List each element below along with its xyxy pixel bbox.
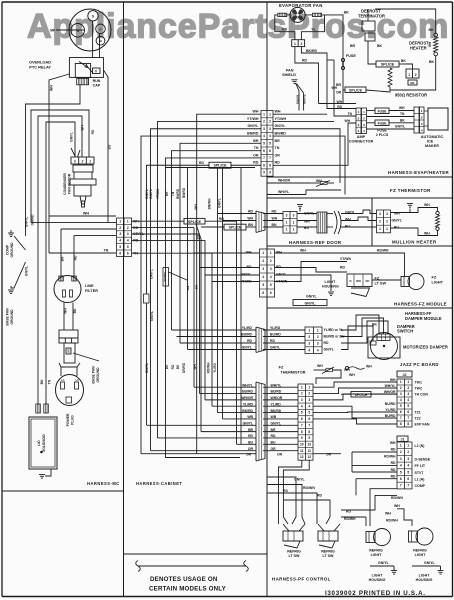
svg-text:7: 7	[301, 423, 303, 427]
svg-text:3: 3	[74, 160, 76, 164]
svg-text:EVP FAN: EVP FAN	[415, 423, 430, 427]
svg-text:BN: BN	[186, 285, 190, 290]
svg-text:EVAPORATOR FAN: EVAPORATOR FAN	[279, 3, 323, 8]
svg-text:5: 5	[308, 411, 310, 415]
svg-text:3: 3	[301, 398, 303, 402]
svg-text:GN/YL: GN/YL	[345, 211, 355, 215]
svg-text:RD/WH: RD/WH	[384, 454, 396, 458]
svg-text:AUTOMATIC: AUTOMATIC	[421, 135, 444, 139]
svg-text:3: 3	[119, 232, 121, 236]
svg-text:1: 1	[293, 220, 295, 224]
svg-text:GN/YL: GN/YL	[270, 346, 280, 350]
svg-text:FUSE: FUSE	[346, 54, 356, 58]
svg-text:7: 7	[400, 416, 402, 420]
svg-text:D-SENSE: D-SENSE	[415, 457, 431, 461]
svg-text:RD: RD	[324, 341, 329, 345]
svg-text:9: 9	[269, 171, 271, 175]
svg-text:1: 1	[408, 73, 410, 77]
svg-text:5: 5	[119, 245, 121, 249]
svg-text:7: 7	[308, 423, 310, 427]
svg-text:WH: WH	[366, 365, 372, 369]
svg-text:6: 6	[127, 251, 129, 255]
svg-text:J1: J1	[401, 438, 405, 442]
svg-text:4: 4	[317, 348, 319, 352]
svg-text:2: 2	[379, 220, 381, 224]
svg-text:RD: RD	[282, 27, 288, 31]
svg-text:6: 6	[119, 251, 121, 255]
svg-text:CONNECTOR: CONNECTOR	[349, 140, 374, 144]
svg-text:GN/YL: GN/YL	[275, 124, 287, 128]
svg-text:5: 5	[407, 470, 409, 474]
svg-text:RD/WN: RD/WN	[391, 496, 403, 500]
svg-text:MULLION HEATER: MULLION HEATER	[392, 240, 437, 245]
svg-text:3: 3	[127, 232, 129, 236]
svg-text:WH: WH	[253, 110, 259, 114]
svg-text:WH: WH	[385, 512, 391, 516]
svg-text:WH: WH	[332, 86, 338, 90]
svg-text:SPLICE: SPLICE	[381, 63, 395, 67]
svg-text:WH/OR: WH/OR	[384, 390, 396, 394]
svg-text:6: 6	[400, 410, 402, 414]
svg-text:7: 7	[407, 416, 409, 420]
svg-text:OR: OR	[275, 153, 281, 157]
svg-text:BK/RD: BK/RD	[306, 49, 318, 53]
svg-text:YL/RD: YL/RD	[270, 326, 281, 330]
svg-text:RD: RD	[171, 364, 175, 369]
svg-text:FF LIT: FF LIT	[415, 464, 426, 468]
svg-text:FZ: FZ	[279, 366, 284, 370]
svg-text:OR: OR	[336, 91, 342, 95]
svg-text:1: 1	[294, 42, 296, 46]
svg-text:DENOTES USAGE ON: DENOTES USAGE ON	[150, 576, 218, 583]
svg-text:RD/WH: RD/WH	[344, 517, 356, 521]
svg-text:RD: RD	[248, 210, 253, 214]
svg-text:WH: WH	[345, 218, 351, 222]
svg-text:5: 5	[127, 245, 129, 249]
svg-text:LIGHT: LIGHT	[432, 281, 444, 285]
svg-text:RD/WN: RD/WN	[303, 486, 315, 490]
svg-text:1: 1	[119, 219, 121, 223]
svg-text:1: 1	[301, 385, 303, 389]
svg-text:6: 6	[407, 410, 409, 414]
svg-text:9: 9	[308, 436, 310, 440]
svg-text:GN/YL: GN/YL	[305, 301, 317, 305]
svg-text:GN/YL: GN/YL	[70, 132, 74, 142]
svg-text:3: 3	[407, 457, 409, 461]
svg-text:TN: TN	[104, 249, 109, 253]
svg-text:TW1: TW1	[415, 381, 422, 385]
svg-text:12: 12	[307, 455, 311, 459]
svg-text:WH: WH	[300, 249, 306, 253]
svg-text:1: 1	[379, 227, 381, 231]
svg-text:2: 2	[400, 450, 402, 454]
svg-text:LIGHT: LIGHT	[325, 280, 337, 284]
svg-text:TN: TN	[400, 112, 405, 116]
svg-text:BK: BK	[176, 364, 180, 369]
svg-text:1: 1	[386, 227, 388, 231]
svg-text:5: 5	[400, 404, 402, 408]
svg-text:L2 (N): L2 (N)	[415, 444, 425, 448]
svg-text:1: 1	[293, 228, 295, 232]
svg-text:AMP: AMP	[357, 135, 366, 139]
svg-text:2: 2	[400, 386, 402, 390]
svg-text:SHIELD: SHIELD	[282, 73, 296, 77]
svg-text:YL/RD: YL/RD	[213, 363, 217, 373]
svg-text:2: 2	[407, 450, 409, 454]
svg-text:CONDENSER: CONDENSER	[63, 173, 67, 195]
svg-text:REFRIG: REFRIG	[287, 550, 301, 554]
svg-text:WH: WH	[247, 217, 253, 221]
svg-text:WH: WH	[64, 308, 68, 314]
svg-text:RD: RD	[317, 494, 323, 498]
svg-text:3: 3	[308, 398, 310, 402]
svg-text:1: 1	[407, 444, 409, 448]
svg-text:BU: BU	[108, 144, 112, 149]
svg-text:BU/RD: BU/RD	[385, 402, 396, 406]
svg-text:GN/YL: GN/YL	[150, 311, 154, 321]
svg-text:RD: RD	[391, 468, 396, 472]
svg-text:7: 7	[263, 156, 265, 160]
svg-text:CERTAIN MODELS ONLY: CERTAIN MODELS ONLY	[149, 586, 227, 593]
svg-text:1: 1	[286, 220, 288, 224]
svg-text:8: 8	[263, 163, 265, 167]
svg-text:WH: WH	[399, 106, 405, 110]
svg-text:RD: RD	[391, 475, 396, 479]
svg-text:OR: OR	[326, 453, 332, 457]
svg-text:HARNESS-CABINET: HARNESS-CABINET	[136, 481, 182, 486]
svg-text:FUSE: FUSE	[378, 110, 388, 114]
svg-text:TH CON: TH CON	[415, 393, 429, 397]
svg-text:JAZZ PC BOARD: JAZZ PC BOARD	[400, 362, 439, 367]
svg-text:4: 4	[301, 404, 303, 408]
svg-text:8: 8	[400, 422, 402, 426]
svg-text:2: 2	[263, 120, 265, 124]
svg-text:5: 5	[400, 470, 402, 474]
svg-text:AppliancePartsPros.com: AppliancePartsPros.com	[27, 8, 449, 46]
svg-text:GROUND: GROUND	[96, 367, 100, 383]
svg-text:3: 3	[269, 127, 271, 131]
svg-text:1: 1	[127, 219, 129, 223]
svg-text:10: 10	[307, 442, 311, 446]
svg-text:8: 8	[407, 422, 409, 426]
svg-text:5: 5	[301, 411, 303, 415]
svg-text:GN/YL: GN/YL	[378, 561, 390, 565]
svg-text:BR: BR	[195, 284, 199, 289]
svg-text:4: 4	[308, 404, 310, 408]
svg-text:GN/YL: GN/YL	[25, 217, 29, 227]
svg-text:2: 2	[308, 392, 310, 396]
svg-text:3: 3	[308, 342, 310, 346]
svg-text:2: 2	[262, 259, 264, 263]
svg-text:SPLICE: SPLICE	[214, 164, 228, 168]
svg-text:VT/WN: VT/WN	[340, 257, 351, 261]
svg-text:LT SW: LT SW	[375, 282, 387, 286]
svg-text:3: 3	[262, 267, 264, 271]
svg-text:WH: WH	[83, 212, 89, 216]
svg-text:FUSE: FUSE	[378, 122, 388, 126]
svg-text:2: 2	[317, 335, 319, 339]
svg-text:WH: WH	[424, 232, 430, 236]
svg-text:RD: RD	[302, 59, 308, 63]
svg-text:1: 1	[308, 328, 310, 332]
svg-text:OR: OR	[277, 453, 283, 457]
svg-text:2: 2	[127, 226, 129, 230]
svg-text:BK: BK	[429, 60, 435, 64]
svg-text:RD: RD	[275, 161, 281, 165]
svg-text:GN/YL: GN/YL	[242, 346, 252, 350]
svg-text:GN/RD: GN/RD	[31, 214, 35, 225]
svg-text:DAMPER MODULE: DAMPER MODULE	[405, 316, 442, 321]
svg-text:OR: OR	[246, 453, 252, 457]
svg-text:BK/WH: BK/WH	[163, 272, 167, 282]
svg-text:7: 7	[269, 156, 271, 160]
svg-text:WO: WO	[356, 279, 362, 283]
svg-text:1: 1	[269, 112, 271, 116]
svg-text:2: 2	[269, 120, 271, 124]
svg-text:BU/RD: BU/RD	[241, 333, 252, 337]
svg-text:BK: BK	[73, 308, 77, 313]
svg-text:WH: WH	[390, 378, 396, 382]
svg-text:GN/YL: GN/YL	[303, 94, 307, 104]
svg-text:BN/RD: BN/RD	[176, 188, 180, 199]
svg-text:2: 2	[308, 335, 310, 339]
svg-text:2: 2	[415, 73, 417, 77]
svg-text:COMP: COMP	[6, 244, 10, 255]
svg-text:6: 6	[400, 477, 402, 481]
svg-text:7: 7	[400, 484, 402, 488]
svg-text:BN: BN	[272, 223, 277, 227]
svg-text:3: 3	[263, 127, 265, 131]
svg-text:TZ1: TZ1	[415, 411, 421, 415]
svg-text:YT/WH: YT/WH	[275, 117, 287, 121]
svg-text:1: 1	[286, 228, 288, 232]
svg-text:5: 5	[407, 404, 409, 408]
svg-text:1: 1	[308, 385, 310, 389]
svg-text:YL/RD: YL/RD	[242, 326, 253, 330]
svg-text:HARNESS-PF CONTROL: HARNESS-PF CONTROL	[272, 577, 331, 582]
svg-text:1: 1	[317, 328, 319, 332]
svg-text:BASE PAN: BASE PAN	[92, 366, 96, 384]
svg-text:RD: RD	[91, 129, 95, 134]
svg-text:2: 2	[270, 259, 272, 263]
svg-text:RD/WH: RD/WH	[207, 362, 211, 373]
svg-text:SPLICE: SPLICE	[188, 220, 202, 224]
svg-text:GROUND: GROUND	[10, 309, 14, 325]
svg-text:L1 (H): L1 (H)	[415, 478, 425, 482]
svg-text:2: 2	[82, 160, 84, 164]
svg-text:HARNESS-FZ MODULE: HARNESS-FZ MODULE	[394, 302, 447, 307]
svg-text:10: 10	[300, 442, 304, 446]
svg-text:TN: TN	[275, 146, 280, 150]
svg-text:HARNESS-EVAP/HEATER: HARNESS-EVAP/HEATER	[388, 170, 450, 175]
svg-text:WH: WH	[193, 364, 197, 370]
svg-text:BR: BR	[253, 139, 259, 143]
svg-text:BR: BR	[275, 139, 281, 143]
svg-text:4: 4	[269, 134, 271, 138]
svg-text:HARNESS-REF DOOR: HARNESS-REF DOOR	[289, 240, 342, 245]
svg-text:6: 6	[301, 417, 303, 421]
svg-text:GN/YL: GN/YL	[217, 198, 221, 208]
svg-text:BN/RD: BN/RD	[275, 131, 287, 135]
svg-text:3: 3	[317, 342, 319, 346]
svg-text:FZ: FZ	[432, 276, 437, 280]
svg-text:COMP: COMP	[415, 484, 426, 488]
svg-text:RD: RD	[247, 339, 252, 343]
svg-text:RD/WH: RD/WH	[386, 519, 398, 523]
svg-text:RD: RD	[272, 210, 277, 214]
svg-text:MAKER: MAKER	[425, 144, 439, 148]
svg-text:1: 1	[270, 251, 272, 255]
svg-text:3: 3	[286, 213, 288, 217]
svg-text:GN/YL: GN/YL	[424, 561, 436, 565]
svg-text:GN/YL: GN/YL	[324, 348, 334, 352]
svg-text:2: 2	[407, 386, 409, 390]
svg-text:WH: WH	[345, 119, 351, 123]
svg-text:OR/RD: OR/RD	[182, 362, 186, 373]
svg-text:950Ω RESISTOR: 950Ω RESISTOR	[395, 93, 427, 98]
svg-text:BN/WH: BN/WH	[208, 198, 212, 209]
svg-text:11: 11	[308, 449, 312, 453]
svg-text:BN: BN	[248, 223, 253, 227]
svg-text:RD: RD	[337, 105, 342, 109]
svg-text:RD: RD	[283, 489, 288, 493]
svg-text:REFRIG: REFRIG	[369, 549, 383, 553]
svg-text:BASE PAN: BASE PAN	[6, 308, 10, 326]
svg-text:9: 9	[301, 436, 303, 440]
svg-text:MOTORIZED DAMPER: MOTORIZED DAMPER	[403, 345, 448, 350]
svg-text:4: 4	[262, 275, 264, 279]
svg-text:FAN MOTOR: FAN MOTOR	[68, 173, 72, 194]
svg-text:REFRIG: REFRIG	[321, 550, 335, 554]
svg-text:4: 4	[400, 398, 402, 402]
svg-text:RUN: RUN	[93, 79, 101, 83]
svg-text:HEATER: HEATER	[410, 46, 427, 51]
svg-text:2: 2	[301, 392, 303, 396]
svg-text:TZ2: TZ2	[415, 417, 421, 421]
svg-text:BK: BK	[344, 11, 349, 15]
svg-text:4: 4	[270, 275, 272, 279]
svg-text:GN/YL: GN/YL	[145, 363, 149, 373]
svg-text:4: 4	[127, 239, 129, 243]
svg-text:OR/YL: OR/YL	[149, 269, 153, 279]
svg-text:3: 3	[293, 213, 295, 217]
svg-text:YL/RD or YL: YL/RD or YL	[324, 328, 344, 332]
svg-text:11: 11	[300, 449, 304, 453]
svg-text:1: 1	[407, 380, 409, 384]
svg-text:RD/WN: RD/WN	[377, 249, 389, 253]
svg-text:SPLICE: SPLICE	[229, 226, 242, 230]
svg-text:STVT: STVT	[415, 471, 425, 475]
svg-text:1: 1	[400, 444, 402, 448]
svg-text:ICE: ICE	[427, 140, 434, 144]
svg-text:2: 2	[119, 226, 121, 230]
svg-text:SPLICE: SPLICE	[349, 89, 363, 93]
svg-text:RD: RD	[253, 161, 259, 165]
svg-text:BN/RD: BN/RD	[182, 187, 186, 198]
svg-text:3: 3	[407, 392, 409, 396]
svg-text:BN: BN	[40, 379, 44, 384]
svg-text:TN: TN	[348, 112, 353, 116]
svg-text:6: 6	[407, 477, 409, 481]
svg-text:6: 6	[263, 149, 265, 153]
svg-text:BU/RD or BU: BU/RD or BU	[324, 335, 345, 339]
svg-text:CAP: CAP	[93, 84, 101, 88]
svg-text:HARNESS-MC: HARNESS-MC	[87, 481, 120, 486]
svg-text:GN/YL: GN/YL	[149, 189, 153, 199]
svg-text:6: 6	[262, 291, 264, 295]
svg-text:1: 1	[262, 251, 264, 255]
svg-text:3: 3	[379, 212, 381, 216]
svg-text:GN/YL: GN/YL	[392, 219, 402, 223]
svg-text:5: 5	[270, 283, 272, 287]
svg-text:RD: RD	[74, 255, 78, 260]
svg-text:1: 1	[400, 380, 402, 384]
svg-text:YT/WH: YT/WH	[156, 188, 160, 199]
svg-text:WH/YL: WH/YL	[385, 384, 396, 388]
svg-text:TN: TN	[254, 146, 259, 150]
svg-text:WH: WH	[390, 441, 396, 445]
svg-text:5: 5	[262, 283, 264, 287]
svg-text:LIGHT: LIGHT	[419, 574, 431, 578]
svg-text:3: 3	[386, 212, 388, 216]
svg-text:4: 4	[119, 239, 121, 243]
svg-text:BN/RD: BN/RD	[247, 131, 259, 135]
svg-text:4: 4	[407, 398, 409, 402]
svg-text:WH: WH	[424, 203, 430, 207]
svg-text:FZ THERMISTOR: FZ THERMISTOR	[390, 188, 431, 193]
svg-text:6: 6	[270, 291, 272, 295]
svg-text:NC: NC	[365, 279, 369, 283]
svg-text:WH: WH	[394, 504, 400, 508]
svg-text:TN: TN	[171, 191, 175, 196]
svg-text:BR: BR	[165, 191, 169, 196]
svg-text:HOUSING: HOUSING	[369, 578, 386, 582]
svg-text:3: 3	[400, 392, 402, 396]
svg-text:RD: RD	[391, 461, 396, 465]
svg-text:LT SW: LT SW	[323, 554, 335, 558]
svg-text:BU/RD: BU/RD	[385, 414, 396, 418]
svg-text:WH: WH	[317, 364, 323, 368]
svg-text:1: 1	[89, 160, 91, 164]
svg-text:LIGHT: LIGHT	[372, 574, 384, 578]
svg-text:12: 12	[300, 455, 304, 459]
svg-text:BK: BK	[400, 119, 405, 123]
svg-text:8: 8	[308, 430, 310, 434]
svg-text:RD: RD	[340, 266, 345, 270]
svg-text:2: 2	[386, 220, 388, 224]
svg-text:GN/YL: GN/YL	[25, 266, 29, 276]
svg-text:HOUSING: HOUSING	[322, 285, 339, 289]
svg-text:GN/YL: GN/YL	[248, 124, 260, 128]
svg-text:1: 1	[263, 112, 265, 116]
svg-text:TERMINATOR: TERMINATOR	[358, 13, 385, 18]
svg-text:BK: BK	[377, 44, 383, 48]
svg-text:4: 4	[407, 464, 409, 468]
svg-text:TN: TN	[48, 379, 52, 384]
svg-text:RD: RD	[199, 161, 204, 165]
svg-text:4: 4	[400, 464, 402, 468]
svg-text:2 PLCS: 2 PLCS	[376, 133, 389, 137]
svg-text:YT/WH: YT/WH	[247, 117, 259, 121]
svg-text:6: 6	[269, 149, 271, 153]
svg-text:WH: WH	[275, 110, 281, 114]
svg-text:WH: WH	[428, 41, 432, 47]
svg-text:9: 9	[263, 171, 265, 175]
svg-text:4: 4	[263, 134, 265, 138]
svg-text:BN: BN	[61, 256, 65, 261]
svg-text:WH: WH	[316, 179, 322, 183]
svg-text:POWER: POWER	[66, 413, 70, 426]
